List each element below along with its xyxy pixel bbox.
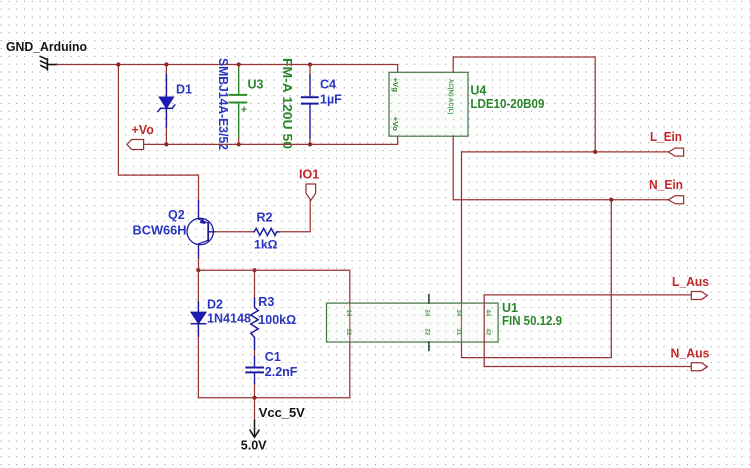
junction +Vo line at C4 (308, 142, 312, 146)
svg-text:R2: R2 (257, 211, 273, 225)
svg-text:LDE10-20B09: LDE10-20B09 (470, 97, 544, 111)
svg-text:BCW66H: BCW66H (133, 223, 187, 237)
wire C4 branch stubs (309, 65, 311, 145)
IC U1 box (327, 303, 499, 342)
junction loop bottom at C1/Vcc (252, 396, 256, 400)
wire +Vo line from flag to U4 bottom-left pin (144, 136, 398, 144)
capacitor C1 (246, 357, 263, 384)
wire loop top and right side (198, 270, 349, 398)
svg-text:+Vg: +Vg (391, 78, 398, 93)
svg-text:34: 34 (455, 310, 461, 317)
wire U4 bottom-right pin to N_Ein line (453, 136, 668, 200)
junction N_Ein line (609, 198, 613, 202)
wire R3 branch stubs (254, 270, 256, 398)
resistor R2 (254, 228, 280, 235)
svg-text:+Vo: +Vo (391, 117, 398, 132)
pin stub U1 top (428, 295, 430, 304)
svg-text:C1: C1 (265, 350, 281, 364)
svg-text:GND_Arduino: GND_Arduino (6, 39, 87, 54)
svg-text:FIN 50.12.9: FIN 50.12.9 (502, 314, 562, 328)
ground GND_Arduino symbol (40, 56, 57, 69)
junction on bus at U3 (237, 62, 241, 66)
svg-text:N_Aus: N_Aus (671, 347, 710, 361)
svg-text:24: 24 (424, 310, 430, 317)
junction on bus at left branch (116, 62, 120, 66)
transistor Q2 (187, 201, 215, 259)
flag N_Aus (691, 363, 707, 371)
svg-text:22: 22 (424, 329, 430, 336)
diode D1 (TVS) (158, 75, 175, 127)
resistor R3 (251, 299, 258, 350)
IC U4 box (389, 72, 468, 136)
junction on bus at D1 (164, 62, 168, 66)
wire U4 top-right pin loop to L_Ein line (453, 57, 595, 152)
wire GND bus from ground to U4 top-left pin (57, 65, 398, 73)
svg-text:D2: D2 (207, 297, 223, 311)
flag L_Ein (668, 148, 683, 156)
wire L_Ein line and down-bridge to N_Ein junction (462, 152, 669, 358)
wire Q2 base to R2 (215, 231, 254, 233)
svg-text:R3: R3 (258, 295, 274, 309)
svg-text:42: 42 (485, 329, 491, 336)
flag L_Aus (691, 292, 707, 300)
svg-text:5.0V: 5.0V (241, 439, 267, 453)
wire loop left stubs around D2 (197, 270, 199, 398)
flag IO1 (306, 184, 316, 200)
svg-text:C4: C4 (320, 78, 336, 92)
svg-text:100kΩ: 100kΩ (258, 313, 296, 327)
svg-text:SMBJ14A-E3/52: SMBJ14A-E3/52 (216, 58, 231, 150)
svg-text:U1: U1 (502, 301, 518, 315)
junction loop top at R3 (252, 268, 256, 272)
junction +Vo line at U3 (237, 142, 241, 146)
wire R2 to IO1 flag (280, 200, 311, 231)
junction +Vo line at D1 (164, 142, 168, 146)
wire Q2 emitter down to loop (198, 259, 200, 271)
flag +Vo (127, 140, 144, 150)
wire left branch down from bus to Q2 collector (118, 65, 198, 203)
junction L_Ein line (593, 150, 597, 154)
junction on bus at C4 (308, 62, 312, 66)
flag N_Ein (668, 196, 683, 204)
svg-text:31: 31 (455, 329, 461, 336)
svg-text:44: 44 (485, 310, 491, 317)
svg-text:Vcc_5V: Vcc_5V (259, 406, 306, 420)
wire Vcc stub down (254, 398, 256, 421)
wire loop bottom (198, 397, 349, 399)
capacitor C4 (302, 75, 318, 138)
svg-text:D1: D1 (176, 83, 192, 97)
svg-text:1N4148: 1N4148 (207, 311, 251, 325)
svg-text:L_Aus: L_Aus (672, 275, 709, 289)
svg-text:1µF: 1µF (320, 93, 342, 107)
svg-text:Q2: Q2 (168, 208, 185, 222)
capacitor U3 (electrolytic, green) (230, 69, 247, 138)
svg-text:L_Ein: L_Ein (650, 130, 682, 144)
svg-text:FM-A 120U 50: FM-A 120U 50 (280, 58, 295, 149)
svg-text:+Vo: +Vo (132, 123, 155, 137)
pin stub U1 bottom (428, 342, 430, 350)
junction loop top at Q2 (196, 268, 200, 272)
svg-text:U4: U4 (470, 84, 486, 98)
wire U3 branch stubs (238, 65, 240, 145)
svg-text:N_Ein: N_Ein (649, 178, 683, 192)
svg-text:12: 12 (345, 329, 351, 336)
svg-text:2.2nF: 2.2nF (265, 365, 298, 379)
svg-text:AC(N)·AC(L): AC(N)·AC(L) (447, 79, 453, 114)
svg-text:1kΩ: 1kΩ (254, 238, 278, 252)
svg-text:IO1: IO1 (299, 168, 319, 182)
wire L_Aus to N_Aus vertical (483, 295, 485, 367)
power arrow 5.0V (250, 420, 259, 437)
wire D1 branch stubs (165, 65, 167, 145)
wire L_Aus line (484, 294, 691, 296)
diode D2 (191, 302, 205, 336)
svg-text:14: 14 (345, 310, 351, 317)
svg-text:U3: U3 (248, 78, 264, 92)
wire N_Aus line (484, 366, 691, 368)
